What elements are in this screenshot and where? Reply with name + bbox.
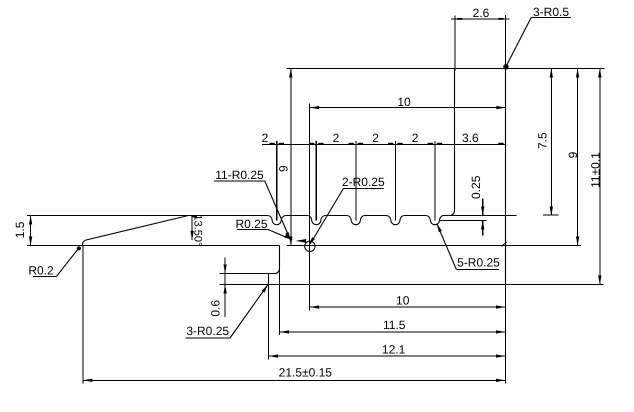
svg-text:11.5: 11.5 bbox=[383, 318, 406, 332]
svg-text:3.6: 3.6 bbox=[462, 131, 479, 145]
svg-text:7.5: 7.5 bbox=[536, 132, 550, 149]
svg-text:R0.25: R0.25 bbox=[235, 217, 267, 231]
svg-text:5-R0.25: 5-R0.25 bbox=[457, 256, 500, 270]
svg-text:R0.2: R0.2 bbox=[28, 264, 54, 278]
svg-text:21.5±0.15: 21.5±0.15 bbox=[279, 366, 333, 380]
svg-text:11±0.1: 11±0.1 bbox=[588, 152, 602, 188]
svg-text:3-R0.5: 3-R0.5 bbox=[533, 5, 569, 19]
svg-text:2: 2 bbox=[412, 131, 419, 145]
svg-text:2: 2 bbox=[372, 131, 379, 145]
svg-text:9: 9 bbox=[566, 151, 580, 158]
svg-text:11-R0.25: 11-R0.25 bbox=[215, 168, 264, 182]
svg-text:1.5: 1.5 bbox=[13, 221, 27, 238]
svg-text:0.6: 0.6 bbox=[209, 300, 223, 317]
svg-text:0.25: 0.25 bbox=[469, 175, 483, 199]
svg-text:10: 10 bbox=[396, 293, 410, 307]
svg-text:2: 2 bbox=[262, 131, 269, 145]
svg-text:3-R0.25: 3-R0.25 bbox=[186, 324, 229, 338]
svg-text:9: 9 bbox=[277, 165, 291, 172]
svg-text:10: 10 bbox=[397, 95, 411, 109]
svg-text:13.50°: 13.50° bbox=[192, 214, 204, 246]
svg-text:2-R0.25: 2-R0.25 bbox=[342, 175, 385, 189]
svg-text:2.6: 2.6 bbox=[473, 6, 490, 20]
svg-text:2: 2 bbox=[333, 131, 340, 145]
svg-text:12.1: 12.1 bbox=[382, 343, 406, 357]
